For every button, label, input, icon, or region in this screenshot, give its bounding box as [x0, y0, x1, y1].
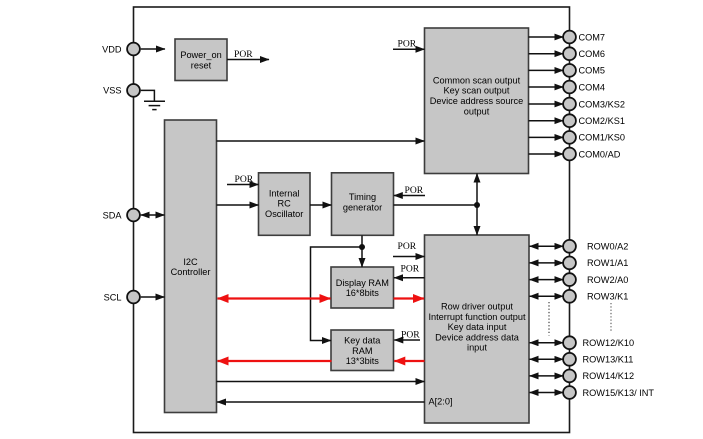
ellipsis dotted line right	[610, 303, 612, 333]
wire row driver to I2C	[217, 401, 425, 403]
svg-text:reset: reset	[191, 61, 212, 71]
block U4 Timing generator	[332, 173, 394, 236]
block U7 Common scan output	[425, 28, 529, 174]
svg-text:ROW1/A1: ROW1/A1	[587, 258, 628, 268]
svg-text:Key scan output: Key scan output	[444, 86, 510, 96]
wire POR to oscillator	[227, 174, 259, 185]
wire POR into common scan block	[393, 38, 425, 49]
svg-text:COM0/AD: COM0/AD	[579, 149, 621, 159]
svg-text:Internal: Internal	[269, 188, 300, 198]
svg-text:Key data input: Key data input	[448, 322, 507, 332]
wire timing generator to display RAM	[361, 236, 363, 248]
wire ROW2	[530, 279, 564, 281]
svg-text:Interrupt function output: Interrupt function output	[428, 312, 525, 322]
wire COM5	[529, 69, 564, 71]
svg-text:ROW15/K13/ INT: ROW15/K13/ INT	[583, 388, 655, 398]
junction dot 2	[359, 244, 365, 250]
wire POR output of power-on reset	[227, 49, 269, 60]
pin ROW3/K1	[563, 290, 628, 303]
svg-text:ROW3/K1: ROW3/K1	[587, 292, 628, 302]
pin ROW14/K12	[563, 370, 634, 383]
ellipsis dotted line left	[548, 302, 550, 336]
svg-text:POR: POR	[401, 330, 420, 341]
wire COM1	[529, 136, 564, 138]
svg-text:COM7: COM7	[579, 32, 606, 42]
svg-text:SCL: SCL	[104, 292, 122, 302]
wire SDA bidirectional	[141, 214, 165, 216]
svg-text:Common scan output: Common scan output	[433, 75, 521, 85]
svg-text:output: output	[464, 106, 490, 116]
svg-text:POR: POR	[398, 241, 417, 252]
pin ROW12/K10	[563, 336, 634, 349]
svg-text:POR: POR	[234, 49, 253, 60]
red bus display RAM - row driver	[394, 297, 425, 299]
wire SCL arrow	[141, 296, 165, 298]
svg-text:SDA: SDA	[103, 210, 123, 220]
svg-text:POR: POR	[401, 264, 420, 275]
svg-text:COM1/KS0: COM1/KS0	[579, 133, 625, 143]
pin SDA	[103, 209, 140, 222]
block U1 Power_on reset	[175, 39, 227, 81]
svg-text:ROW14/K12: ROW14/K12	[583, 371, 635, 381]
wire ROW12	[530, 342, 564, 344]
wire COM0	[529, 153, 564, 155]
svg-text:POR: POR	[405, 185, 424, 196]
wire COM6	[529, 53, 564, 55]
wire ROW0	[530, 245, 564, 247]
svg-text:Device address data: Device address data	[435, 332, 520, 342]
wire ROW3	[530, 295, 564, 297]
svg-text:input: input	[467, 343, 487, 353]
pin COM6	[563, 47, 605, 60]
block U5 Display RAM 16*8bits	[331, 267, 394, 308]
red bus I2C - display RAM	[218, 297, 331, 299]
wire ROW13	[530, 358, 564, 360]
pin ROW15/K13/INT	[563, 386, 654, 399]
wire VSS to ground	[141, 90, 155, 101]
svg-text:COM5: COM5	[579, 66, 606, 76]
pin ROW1/A1	[563, 257, 628, 270]
svg-text:COM2/KS1: COM2/KS1	[579, 116, 625, 126]
wire ROW15	[530, 392, 564, 394]
svg-text:POR: POR	[398, 38, 417, 49]
svg-text:COM6: COM6	[579, 49, 606, 59]
svg-text:RAM: RAM	[352, 346, 372, 356]
pin COM3/KS2	[563, 98, 625, 111]
wire COM2	[529, 120, 564, 122]
block U2 I2C Controller	[165, 120, 217, 413]
pin COM2/KS1	[563, 114, 625, 127]
svg-text:I2C: I2C	[183, 257, 198, 267]
pin VSS	[103, 84, 140, 97]
pin ROW2/A0	[563, 273, 628, 286]
wire COM3	[529, 103, 564, 105]
wire vertical bus common-row	[476, 174, 478, 236]
svg-text:COM3/KS2: COM3/KS2	[579, 99, 625, 109]
wire I2C to oscillator	[217, 204, 259, 206]
wire POR into display RAM	[394, 264, 425, 278]
svg-text:COM4: COM4	[579, 82, 606, 92]
svg-text:16*8bits: 16*8bits	[346, 288, 380, 298]
svg-text:Device address source: Device address source	[430, 96, 523, 106]
svg-text:VSS: VSS	[103, 86, 121, 96]
wire POR into timing generator	[394, 185, 425, 196]
junction dot	[474, 202, 480, 208]
chip outline frame	[134, 7, 570, 433]
pin ROW0/A2	[563, 240, 628, 253]
pin COM4	[563, 81, 605, 94]
block U6 Key data RAM 13*3bits	[331, 330, 394, 371]
wire timing generator to junction	[394, 204, 478, 206]
pin COM7	[563, 31, 605, 44]
node A[2:0]	[429, 397, 453, 407]
wire oscillator to timing generator	[310, 204, 332, 206]
pin COM5	[563, 64, 605, 77]
wire VDD arrow	[141, 48, 165, 50]
svg-text:ROW2/A0: ROW2/A0	[587, 275, 628, 285]
block U3 Internal RC Oscillator	[259, 173, 311, 236]
pin COM0/AD	[563, 148, 621, 161]
pin ROW13/K11	[563, 353, 633, 366]
svg-text:Power_on: Power_on	[180, 50, 221, 60]
svg-text:Row driver output: Row driver output	[441, 302, 513, 312]
svg-text:ROW13/K11: ROW13/K11	[583, 355, 634, 365]
svg-text:Timing: Timing	[349, 192, 376, 202]
wire POR into row driver block	[393, 241, 425, 257]
svg-text:VDD: VDD	[102, 44, 122, 54]
red bus row driver - key data RAM	[394, 360, 424, 362]
wire ROW1	[530, 262, 564, 264]
wire POR into key data RAM	[394, 330, 420, 341]
block U8 Row driver	[425, 235, 530, 423]
svg-text:Key data: Key data	[344, 336, 381, 346]
svg-text:Controller: Controller	[171, 267, 211, 277]
svg-text:Display RAM: Display RAM	[336, 278, 389, 288]
svg-text:POR: POR	[235, 174, 254, 185]
svg-text:generator: generator	[343, 202, 382, 212]
wire junction to key data RAM	[311, 247, 363, 341]
svg-text:ROW0/A2: ROW0/A2	[587, 242, 628, 252]
ground	[144, 101, 165, 109]
wire junction to display RAM arrow	[361, 247, 363, 267]
svg-text:A[2:0]: A[2:0]	[429, 397, 453, 407]
wire ROW14	[530, 375, 564, 377]
svg-text:ROW12/K10: ROW12/K10	[583, 338, 635, 348]
svg-text:Oscillator: Oscillator	[265, 209, 303, 219]
red bus key data RAM - I2C	[218, 360, 332, 362]
wire COM4	[529, 86, 564, 88]
pin VDD	[102, 43, 140, 56]
pin COM1/KS0	[563, 131, 625, 144]
wire I2C to row driver	[217, 381, 425, 383]
svg-text:RC: RC	[278, 199, 292, 209]
wire I2C to Common scan block	[217, 140, 425, 142]
pin SCL	[104, 291, 140, 304]
svg-text:13*3bits: 13*3bits	[346, 356, 380, 366]
wire COM7	[529, 36, 564, 38]
